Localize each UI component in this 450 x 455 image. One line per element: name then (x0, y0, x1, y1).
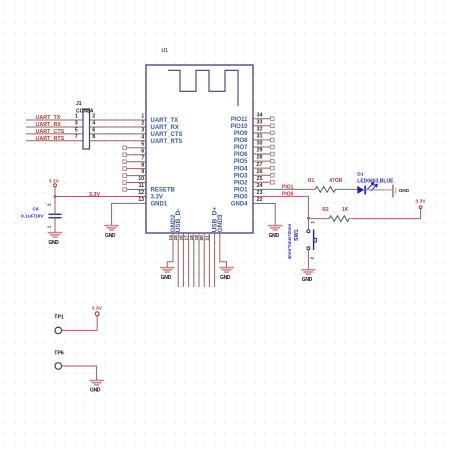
svg-text:3.3V: 3.3V (92, 306, 103, 312)
svg-text:R2: R2 (322, 207, 329, 213)
svg-text:1: 1 (141, 114, 144, 120)
no-connect stubs U1 pins 5-11 (126, 147, 146, 149)
svg-text:0.1uF/16V: 0.1uF/16V (21, 213, 44, 219)
wire U1 pin13 GND1 to ground (112, 203, 146, 225)
svg-text:GND: GND (302, 277, 313, 283)
svg-text:31: 31 (257, 134, 263, 140)
wire SW1 pin2 to ground (307, 250, 309, 270)
svg-text:34: 34 (257, 112, 263, 118)
svg-text:5: 5 (75, 127, 78, 133)
svg-text:PIO11: PIO11 (231, 117, 248, 123)
svg-text:6: 6 (141, 148, 144, 154)
svg-text:3.3V: 3.3V (89, 192, 100, 198)
svg-text:D1: D1 (357, 171, 364, 177)
junction node PIO0/R2/SW1 (307, 217, 310, 220)
svg-text:U1: U1 (162, 48, 169, 54)
svg-text:R1: R1 (308, 178, 315, 184)
SW1 contacts and actuator (307, 230, 310, 233)
svg-text:PIO0: PIO0 (234, 195, 248, 201)
svg-text:GND: GND (161, 275, 172, 281)
ground below SW1 (301, 269, 316, 271)
svg-text:3: 3 (141, 128, 144, 134)
svg-text:LED0603,BLUE: LED0603,BLUE (357, 179, 394, 185)
svg-text:10: 10 (138, 176, 144, 182)
wire 3.3V net to U1 pin 12 (55, 195, 146, 197)
svg-text:PIO3: PIO3 (234, 173, 248, 179)
svg-text:PIO2: PIO2 (234, 180, 248, 186)
wire PIO1 from U1 pin24 to R1 (253, 188, 315, 190)
wire R1 to LED D1 anode (336, 188, 358, 190)
svg-text:GND: GND (399, 188, 410, 194)
wire junction to R2 (308, 218, 329, 220)
svg-text:GND1: GND1 (151, 202, 168, 208)
svg-text:PIO1: PIO1 (234, 187, 248, 193)
svg-text:J1: J1 (76, 101, 82, 107)
svg-text:GND: GND (48, 240, 59, 246)
svg-text:7: 7 (75, 134, 78, 140)
wire TP1 to 3.3V terminal (62, 316, 98, 330)
wire junction down to SW1 pin1 (307, 218, 309, 230)
svg-text:3.3V: 3.3V (49, 178, 60, 184)
svg-text:GND: GND (105, 233, 116, 239)
svg-text:3.3V: 3.3V (151, 195, 163, 201)
svg-text:7: 7 (141, 155, 144, 161)
op module U1 body (146, 65, 253, 233)
svg-text:2: 2 (309, 257, 314, 260)
svg-text:23: 23 (257, 190, 263, 196)
wire TP6 to ground (62, 366, 97, 380)
power port GND bar after LED (392, 185, 394, 198)
svg-text:8: 8 (92, 134, 95, 140)
wire PIO0 from U1 pin23 down to switch (253, 196, 308, 218)
wire UART_CTS from J1 pin5 to U1 pin3 (26, 133, 83, 135)
svg-text:22: 22 (257, 197, 263, 203)
antenna meander inside U1 (168, 70, 238, 106)
svg-text:9: 9 (141, 169, 144, 175)
svg-text:CON8A: CON8A (76, 109, 94, 115)
svg-text:PIO6: PIO6 (234, 152, 248, 158)
ground below GND3 pin (219, 267, 234, 269)
wire U1 pin22 GND4 to ground (253, 204, 275, 226)
svg-text:47OR: 47OR (329, 178, 342, 184)
svg-text:UART_CTS: UART_CTS (151, 132, 183, 138)
svg-text:13: 13 (138, 197, 144, 203)
svg-text:UART_TX: UART_TX (151, 118, 179, 124)
svg-text:GND4: GND4 (231, 202, 248, 208)
svg-text:12: 12 (138, 190, 144, 196)
svg-text:GND: GND (269, 233, 280, 239)
svg-text:2: 2 (92, 113, 95, 119)
svg-text:GND3: GND3 (217, 214, 224, 232)
LED emission arrows (367, 183, 373, 190)
svg-text:PIO8: PIO8 (234, 138, 248, 144)
svg-text:UART_RX: UART_RX (36, 122, 62, 128)
ground below pin14 (160, 267, 175, 269)
wire UART_RTS from J1 pin7 to U1 pin4 (26, 140, 83, 142)
svg-text:3.3V: 3.3V (415, 199, 426, 205)
svg-text:PIO0: PIO0 (282, 192, 294, 198)
wire UART_RX from J1 pin3 to U1 pin2 (26, 126, 83, 128)
svg-text:28: 28 (257, 155, 263, 161)
svg-text:5: 5 (141, 141, 144, 147)
svg-text:29: 29 (257, 148, 263, 154)
svg-text:TP6: TP6 (54, 350, 64, 356)
svg-text:6: 6 (92, 127, 95, 133)
svg-text:8: 8 (141, 162, 144, 168)
svg-text:1K: 1K (342, 207, 349, 213)
svg-text:RESETB: RESETB (151, 188, 176, 194)
svg-text:2: 2 (47, 203, 52, 206)
wire U1 pin14 GND2 to ground (167, 233, 173, 267)
svg-text:GND: GND (90, 388, 101, 394)
svg-text:1: 1 (310, 221, 315, 224)
no-connect stubs U1 pins 34-25 (253, 118, 271, 120)
svg-text:4: 4 (141, 134, 144, 140)
ground for GND1 (104, 225, 119, 227)
svg-text:SW1: SW1 (294, 229, 300, 241)
ground below TP6 (89, 380, 104, 382)
svg-text:GND: GND (220, 275, 231, 281)
capacitor C6 (49, 213, 62, 215)
svg-text:UART_CTS: UART_CTS (36, 129, 65, 135)
svg-text:33: 33 (257, 119, 263, 125)
svg-text:25: 25 (257, 176, 263, 182)
svg-text:TP1: TP1 (54, 314, 64, 320)
svg-text:4mm*3mm*2mm: 4mm*3mm*2mm (287, 224, 292, 260)
junction node 3.3V/C6 (54, 195, 57, 198)
svg-text:UART_RTS: UART_RTS (36, 136, 65, 142)
ground below C6 (48, 232, 63, 234)
svg-text:PIO10: PIO10 (230, 124, 248, 130)
wire junction to C6 top plate (54, 196, 56, 214)
svg-text:1: 1 (75, 113, 78, 119)
svg-text:4: 4 (92, 120, 95, 126)
svg-text:PIO5: PIO5 (234, 159, 248, 165)
wire R2 to 3.3V terminal (351, 209, 421, 219)
svg-text:2: 2 (141, 121, 144, 127)
wire C6 bottom plate to ground (54, 218, 56, 233)
svg-text:3: 3 (75, 120, 78, 126)
wire LED cathode to GND bar (365, 189, 384, 191)
svg-text:C6: C6 (33, 206, 39, 212)
svg-text:UART_TX: UART_TX (36, 115, 61, 121)
USB and NC bottom wires (177, 233, 179, 287)
svg-text:UART_RX: UART_RX (151, 125, 179, 131)
svg-text:UART_RTS: UART_RTS (151, 139, 183, 145)
svg-text:26: 26 (257, 169, 263, 175)
wire UART_TX from J1 pin1 to U1 pin1 (26, 119, 83, 121)
svg-text:PIO7: PIO7 (234, 145, 248, 151)
svg-text:24: 24 (257, 183, 263, 189)
svg-text:PIO9: PIO9 (234, 131, 248, 137)
svg-text:USB_D-: USB_D- (175, 209, 182, 233)
svg-text:1: 1 (47, 225, 52, 228)
ground for GND4 (268, 225, 283, 227)
svg-text:PIO4: PIO4 (234, 166, 248, 172)
svg-text:30: 30 (257, 141, 263, 147)
wire 3.3V terminal down to junction (54, 187, 56, 197)
svg-text:11: 11 (138, 183, 144, 189)
wire U1 GND3 pin to ground (220, 233, 227, 267)
svg-text:PIO1: PIO1 (282, 185, 294, 191)
svg-text:32: 32 (257, 126, 263, 132)
connector J1 CON8A (83, 109, 90, 149)
svg-text:27: 27 (257, 162, 263, 168)
